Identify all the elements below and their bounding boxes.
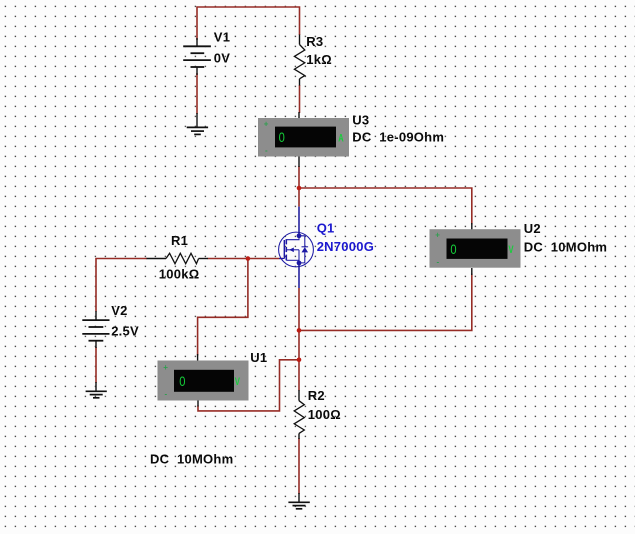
- wire source junction to U2 bottom: [299, 274, 472, 331]
- svg-text:DC 1e-09Ohm: DC 1e-09Ohm: [352, 130, 444, 145]
- resistor R2: [294, 390, 304, 439]
- svg-text:-: -: [265, 146, 268, 155]
- svg-text:2N7000G: 2N7000G: [317, 239, 374, 254]
- wire V1 top to R3 top: [197, 7, 300, 40]
- svg-text:V2: V2: [111, 303, 127, 318]
- svg-text:-: -: [165, 390, 168, 399]
- multimeter U3: [258, 112, 349, 167]
- wire node B junction to R2 top: [298, 360, 300, 391]
- svg-text:1kΩ: 1kΩ: [306, 52, 332, 67]
- transistor Q1: [279, 207, 314, 288]
- wire gate junction down and to U1 top: [198, 259, 248, 356]
- svg-text:R2: R2: [308, 388, 325, 403]
- svg-text:U1: U1: [250, 350, 267, 365]
- wire drain junction to Q1 drain stub: [298, 188, 300, 207]
- voltmeter U2: [430, 223, 521, 275]
- wire R2 bottom to ground: [298, 438, 300, 494]
- battery V1: [183, 38, 211, 75]
- svg-text:+: +: [264, 119, 269, 128]
- wire Q1 source stub to source junction: [298, 288, 300, 330]
- svg-text:R1: R1: [171, 233, 188, 248]
- svg-text:100kΩ: 100kΩ: [159, 266, 200, 281]
- svg-text:V: V: [508, 244, 514, 256]
- ground (below V1): [187, 113, 208, 134]
- ground (below V2): [86, 382, 107, 398]
- svg-text:V: V: [235, 376, 241, 388]
- wire node B junction to U1 bottom: [198, 360, 299, 411]
- wire U3 bottom to drain junction: [298, 166, 300, 188]
- ground (below R2): [288, 493, 309, 509]
- svg-text:U3: U3: [352, 112, 369, 127]
- wire source junction down to node B junction: [298, 330, 300, 359]
- svg-text:0: 0: [450, 241, 456, 257]
- wire R1 right to gate junction to Q1 gate: [208, 258, 284, 260]
- junction dot gate node: [246, 256, 251, 261]
- svg-text:R3: R3: [306, 34, 323, 49]
- svg-text:Q1: Q1: [317, 220, 335, 235]
- wire R3 bottom to U3 top: [299, 85, 301, 113]
- wire R1 left to V2 top: [96, 259, 147, 312]
- junction dot source node: [297, 328, 302, 333]
- svg-text:DC 10MOhm: DC 10MOhm: [524, 239, 607, 254]
- svg-text:0: 0: [279, 129, 285, 145]
- svg-text:100Ω: 100Ω: [308, 407, 341, 422]
- voltmeter U1: [158, 354, 249, 407]
- wire drain junction to U2 top: [299, 188, 472, 225]
- resistor R3: [294, 35, 304, 86]
- svg-text:-: -: [437, 257, 440, 266]
- resistor R1: [147, 253, 209, 263]
- svg-text:+: +: [435, 231, 440, 240]
- svg-text:V1: V1: [214, 29, 230, 44]
- svg-text:2.5V: 2.5V: [111, 323, 139, 338]
- junction dot node B: [297, 358, 302, 363]
- svg-text:A: A: [338, 132, 343, 144]
- wire V2 bottom to ground: [95, 347, 97, 383]
- battery V2: [82, 311, 109, 348]
- wire V1 bottom to ground: [196, 73, 198, 114]
- svg-text:0: 0: [179, 373, 185, 389]
- svg-text:0V: 0V: [214, 50, 230, 65]
- svg-text:U2: U2: [524, 221, 541, 236]
- svg-text:DC 10MOhm: DC 10MOhm: [150, 451, 233, 466]
- junction dot drain node: [297, 186, 302, 191]
- svg-text:+: +: [163, 363, 168, 372]
